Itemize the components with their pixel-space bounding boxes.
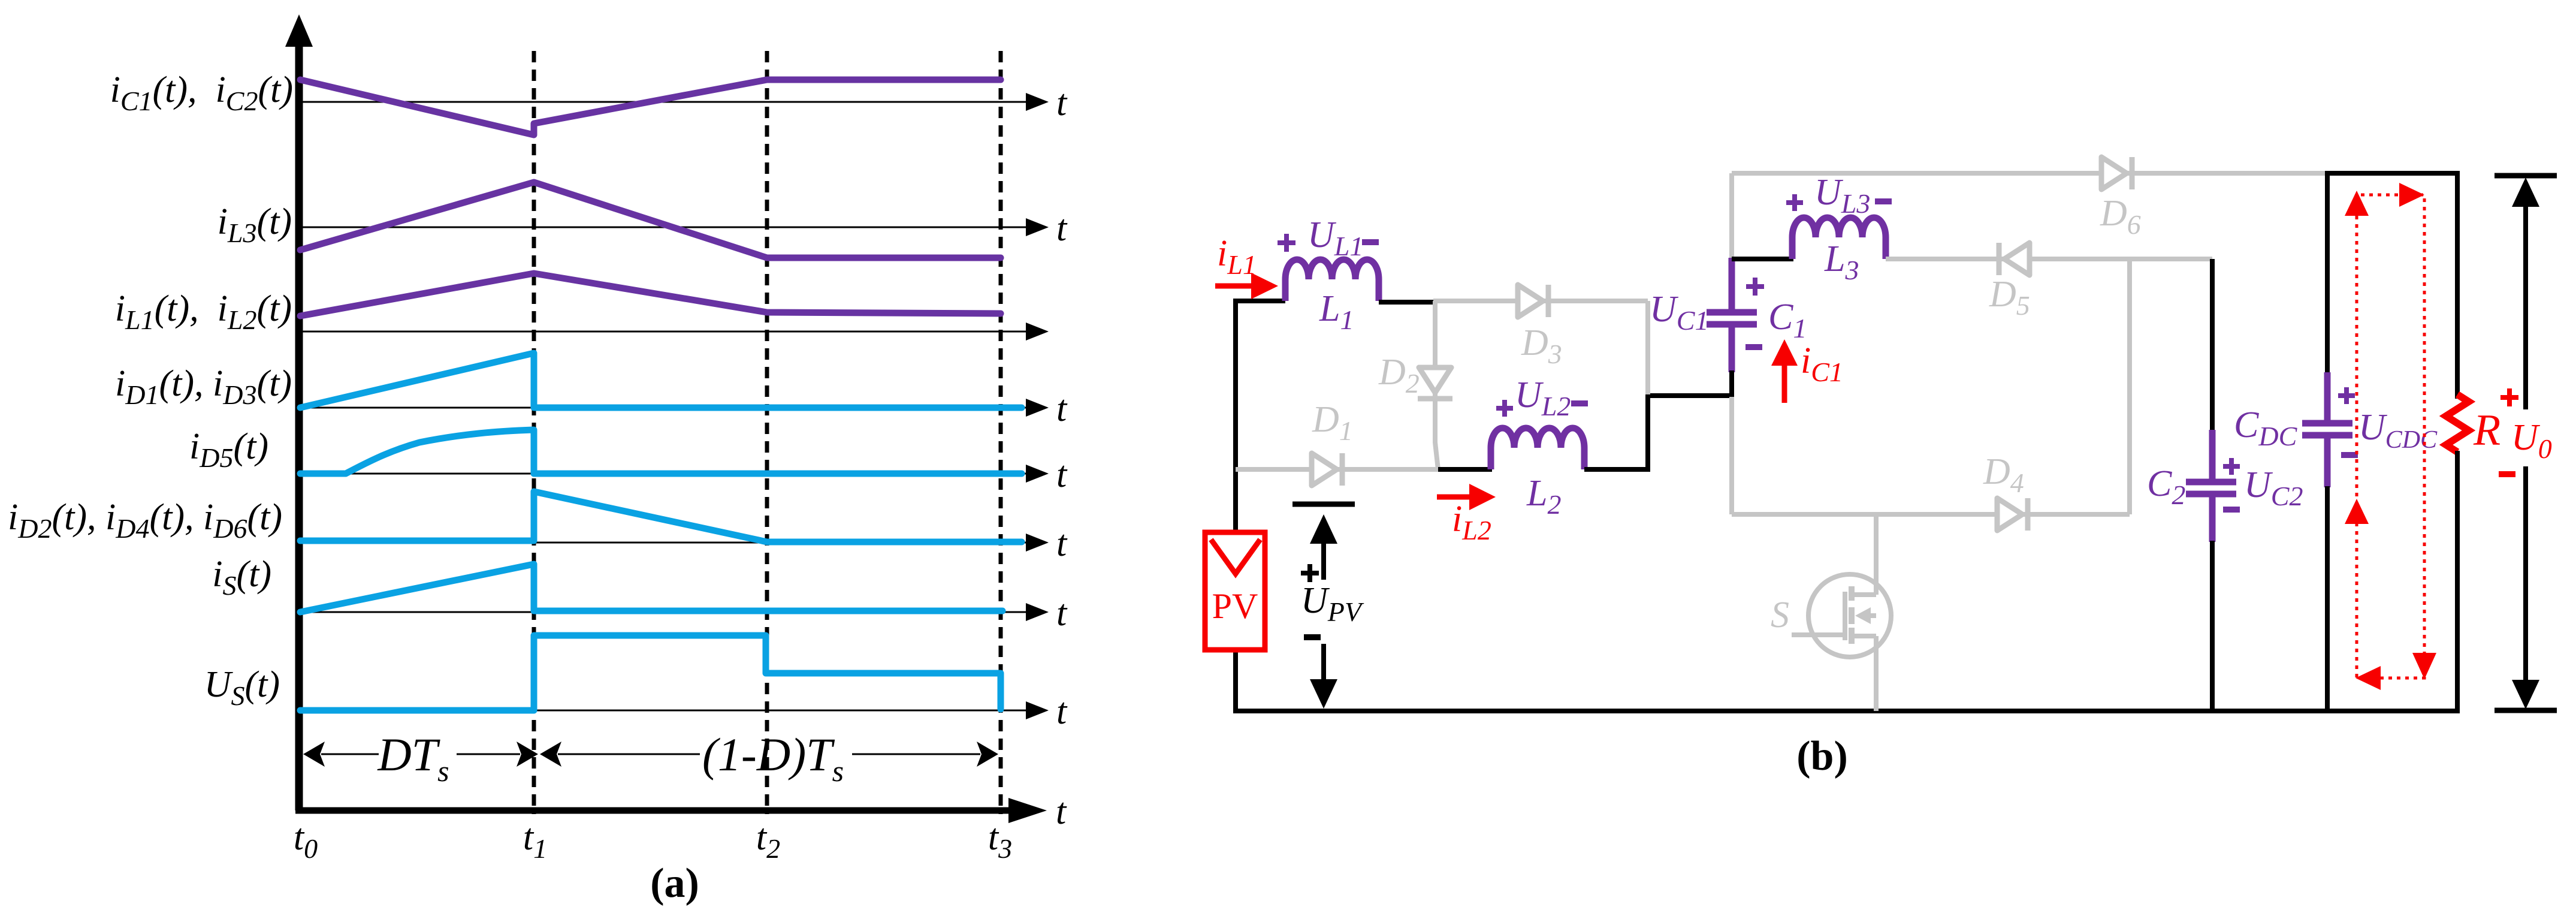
wire: PV branch left vertical [1236, 301, 1285, 534]
wire: L1 to D3 junction [1379, 300, 1436, 305]
resistor R [2446, 394, 2469, 711]
svg-text:t: t [1056, 691, 1068, 732]
waveform iL1(t), iL2(t) [300, 273, 1001, 316]
capacitor CDC [2302, 372, 2352, 487]
U0 down arrow [2512, 466, 2539, 709]
waveform US(t) [300, 635, 1001, 710]
svg-text:(1-D)Ts: (1-D)Ts [702, 728, 844, 788]
label UC2 with + - [2223, 458, 2303, 511]
CDC branch top black [2325, 173, 2330, 373]
wire: L2 to C1 bottom node [1584, 396, 1732, 469]
gray box left vertical top (C1 top to top rail) [1729, 173, 1734, 259]
row axis iD1/iD3 [299, 388, 1068, 429]
diode D6 [2101, 157, 2132, 189]
svg-text:(b): (b) [1796, 733, 1848, 779]
row axis iD2/iD4/iD6 [299, 523, 1068, 564]
CDC branch bottom black [2325, 486, 2330, 711]
svg-text:t: t [1056, 208, 1068, 249]
svg-text:iS(t): iS(t) [212, 554, 271, 601]
interval annotation DTs [303, 728, 538, 788]
wire: C1 top node to L3 [1732, 257, 1793, 261]
diode D3 line [1433, 299, 1648, 303]
PV source [1205, 532, 1265, 650]
wire: D3 down to C1 bottom node (gray) [1645, 301, 1650, 394]
wire: bottom bus [1233, 709, 2460, 713]
waveform iD2(t), iD4(t), iD6(t) [300, 492, 1022, 542]
top rail black segment [2325, 173, 2457, 399]
current arrow iL1 [1215, 273, 1278, 299]
capacitor C1 [1707, 258, 1757, 372]
waveform iD5(t) [300, 430, 1022, 474]
diode D5 line [1886, 257, 2212, 261]
svg-text:(a): (a) [650, 860, 699, 906]
svg-text:t: t [1056, 454, 1068, 495]
svg-text:S: S [1771, 595, 1789, 635]
waveform iD1(t), iD3(t) [300, 353, 1022, 408]
row axis iS [299, 593, 1068, 634]
wire: C2 branch top [2210, 259, 2215, 431]
bottom time axis t [295, 791, 1067, 832]
top rail gray with D6 [1732, 171, 2327, 176]
dashed gridline t3 [999, 51, 1003, 814]
label + U0 - [2499, 388, 2552, 474]
interval annotation (1-D)Ts [540, 728, 998, 788]
svg-text:t: t [1056, 388, 1068, 429]
diode D1 [1312, 453, 1342, 486]
current arrow iC1 [1771, 339, 1798, 403]
capacitor C2 [2186, 430, 2236, 542]
svg-text:t: t [1056, 791, 1067, 832]
MOSFET S drain lead [1874, 514, 1879, 595]
diode D1 line [1236, 467, 1438, 472]
row axis iD5 [299, 454, 1068, 495]
MOSFET S body [1792, 574, 1891, 657]
MOSFET S source lead [1874, 636, 1879, 711]
gray connector D5 rail to D4 rail [2127, 259, 2132, 514]
dashed gridline t2 [765, 51, 769, 814]
U0 measurement bottom bar [2495, 708, 2557, 713]
wire: C2 branch bottom [2210, 541, 2215, 711]
waveform iL3(t) [300, 182, 1001, 258]
wire: C1 bottom short black [1729, 370, 1734, 397]
svg-text:t: t [1056, 593, 1068, 634]
wire: D1/D2 junction to L2 [1438, 467, 1492, 472]
label C1 with + - [1745, 278, 1807, 347]
label + UL3 - [1786, 172, 1892, 219]
vertical axis of panel (a) [285, 14, 313, 810]
dashed gridline t1 [532, 51, 536, 814]
label + UL1 - [1278, 215, 1379, 261]
inductor L2 [1491, 428, 1584, 469]
label UCDC with + - [2338, 387, 2438, 455]
diode D2 branch [1435, 301, 1438, 469]
U0 measurement top bar [2495, 173, 2557, 179]
label + UL2 - [1496, 375, 1588, 421]
diode D2 [1418, 367, 1452, 399]
diode D5 [1999, 243, 2030, 275]
inductor L1 [1285, 260, 1379, 301]
current arrow iL2 [1437, 484, 1496, 510]
red dotted current loop [2345, 183, 2436, 690]
row axis US [299, 691, 1068, 732]
svg-text:R: R [2473, 406, 2500, 455]
inductor L3 [1792, 218, 1886, 259]
waveform iC1(t), iC2(t) [300, 80, 1001, 135]
row axis iC1/iC2 [299, 83, 1068, 123]
diode D3 [1518, 285, 1548, 317]
svg-text:PV: PV [1212, 586, 1258, 626]
U0 up arrow [2512, 177, 2539, 409]
row axis iL1/iL2 [299, 323, 1049, 341]
waveform iS(t) [300, 564, 1002, 612]
svg-text:t: t [1056, 83, 1068, 123]
gray box left vertical bottom (C1 node to D4 rail) [1729, 396, 1734, 514]
wire: PV bottom to ground bus corner [1233, 649, 1238, 711]
UPV voltage annotation arrows [1292, 504, 1355, 709]
diode D4 line [1732, 512, 2130, 517]
row axis iL3 [299, 208, 1068, 249]
diode D4 [1997, 498, 2028, 531]
svg-text:t: t [1056, 523, 1068, 564]
